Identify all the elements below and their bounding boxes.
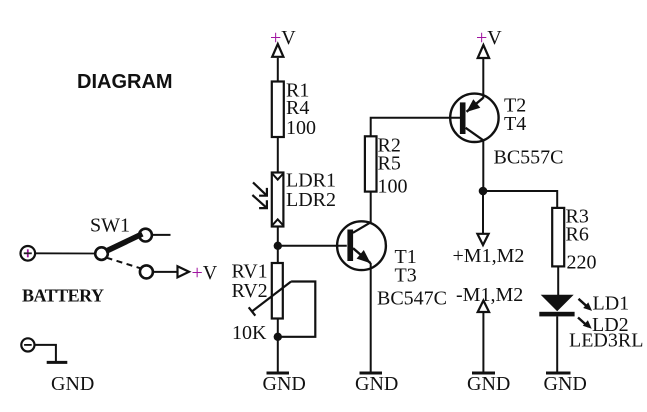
wire -M arrow to ground [482, 313, 484, 372]
label BATTERY [22, 286, 104, 306]
title DIAGRAM [77, 71, 173, 93]
svg-text:GND: GND [544, 373, 587, 395]
transistor T1 BC547C [337, 221, 447, 309]
wire junction to R3 [483, 191, 557, 208]
ground (under T1) [355, 373, 398, 395]
svg-text:RV2: RV2 [232, 280, 268, 302]
svg-text:GND: GND [467, 373, 510, 395]
wire T1 emitter to ground [370, 263, 372, 372]
wire T1 collector to R2 [370, 192, 372, 223]
svg-text:LD1: LD1 [593, 293, 630, 315]
transistor T2 BC557C [450, 94, 563, 169]
potentiometer RV1/RV2 10K [232, 261, 316, 345]
ground (under RV) [263, 373, 306, 395]
node +V (top of R1 rail) [270, 27, 296, 57]
svg-text:R6: R6 [566, 224, 589, 246]
svg-text:220: 220 [567, 252, 597, 274]
svg-text:T3: T3 [395, 265, 417, 287]
svg-text:LED3RL: LED3RL [569, 330, 643, 352]
resistor R1 [272, 80, 316, 140]
wire junction to +M arrow [482, 191, 484, 234]
ground (under LED) [544, 373, 587, 395]
wire battery+ to switch pole [35, 252, 95, 254]
svg-text:DIAGRAM: DIAGRAM [77, 71, 173, 93]
wire battery- to ground [35, 345, 56, 362]
wire R2 top to T2 base [371, 118, 461, 137]
svg-text:10K: 10K [232, 322, 267, 344]
wire R3 to LED [557, 266, 559, 295]
resistor R3 [552, 206, 596, 274]
svg-text:SW1: SW1 [90, 215, 130, 237]
svg-text:+M1,M2: +M1,M2 [453, 245, 525, 267]
node junction (collector/R3/+M) [479, 187, 488, 196]
ground (battery) [47, 362, 95, 395]
svg-text:+V: +V [270, 27, 296, 49]
ground (under -M arrow) [467, 373, 510, 395]
svg-text:BC557C: BC557C [494, 147, 564, 169]
svg-text:100: 100 [286, 117, 316, 139]
battery positive terminal [21, 246, 36, 261]
LDR LDR1/LDR2 [252, 170, 336, 227]
svg-text:R5: R5 [378, 153, 401, 175]
wire junction to T1 base [278, 245, 347, 247]
switch SW1 [90, 215, 171, 279]
svg-text:BC547C: BC547C [377, 288, 447, 310]
node junction (RV wiper/bottom) [274, 333, 282, 341]
wire R1 to LDR [277, 137, 279, 173]
wire LDR to junction to RV [277, 227, 279, 264]
wire RV to ground [277, 319, 279, 372]
svg-text:LDR2: LDR2 [286, 189, 336, 211]
svg-text:GND: GND [355, 373, 398, 395]
svg-text:100: 100 [378, 176, 408, 198]
wire switch to +V arrow [153, 271, 177, 273]
svg-text:GND: GND [51, 373, 94, 395]
svg-text:-M1,M2: -M1,M2 [456, 284, 523, 306]
wire T2 collector to junction [482, 140, 484, 191]
svg-text:BATTERY: BATTERY [22, 286, 104, 306]
node +M1,M2 [453, 234, 525, 267]
svg-text:+V: +V [192, 262, 218, 284]
node +V (battery output) [178, 262, 218, 284]
battery negative terminal [21, 338, 34, 351]
node +V (top right) [476, 27, 502, 58]
svg-text:GND: GND [263, 373, 306, 395]
resistor R2 [365, 135, 408, 198]
node -M1,M2 [456, 284, 523, 312]
wire +V to T2 emitter [482, 59, 484, 99]
svg-text:T4: T4 [504, 113, 526, 135]
svg-text:+V: +V [476, 27, 502, 49]
wire +V to R1 [277, 58, 279, 82]
LED LD1/LD2 LED3RL [539, 293, 643, 352]
wire LED to ground [556, 316, 558, 371]
node junction (LDR/RV/base) [274, 242, 282, 250]
svg-text:R4: R4 [286, 97, 309, 119]
